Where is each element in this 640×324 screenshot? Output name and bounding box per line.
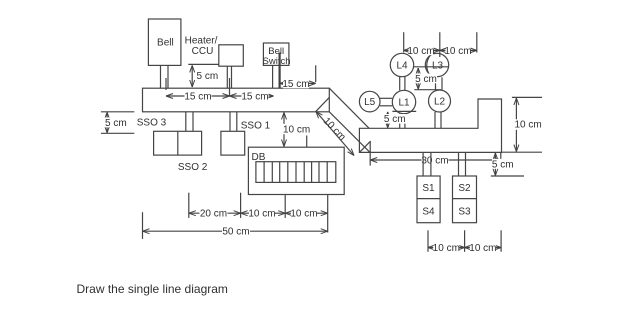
svg-text:L4: L4 [396,61,408,72]
svg-text:10 cm: 10 cm [407,46,434,57]
svg-text:15 cm: 15 cm [241,91,268,102]
svg-text:Bell: Bell [157,38,174,49]
svg-text:L3: L3 [432,61,444,72]
svg-text:5 cm: 5 cm [384,114,406,125]
svg-text:5 cm: 5 cm [197,71,219,82]
svg-text:5 cm: 5 cm [492,159,514,170]
svg-text:S2: S2 [458,183,471,194]
svg-text:SSO 2: SSO 2 [178,162,208,173]
svg-text:20 cm: 20 cm [200,209,227,220]
svg-text:L5: L5 [364,97,376,108]
svg-text:SSO 3: SSO 3 [137,118,167,129]
svg-text:15 cm: 15 cm [184,91,211,102]
svg-text:10 cm: 10 cm [248,209,275,220]
svg-text:10 cm: 10 cm [444,46,471,57]
svg-text:L1: L1 [398,98,410,109]
svg-text:10 cm: 10 cm [321,116,348,143]
svg-text:10 cm: 10 cm [515,120,542,131]
svg-text:L2: L2 [434,97,446,108]
svg-text:10 cm: 10 cm [469,243,496,254]
svg-text:10 cm: 10 cm [433,243,460,254]
svg-text:SSO 1: SSO 1 [241,121,271,132]
svg-text:15 cm: 15 cm [282,79,309,90]
svg-text:30 cm: 30 cm [421,156,448,167]
svg-text:5 cm: 5 cm [415,74,437,85]
svg-text:5 cm: 5 cm [105,118,127,129]
svg-text:S4: S4 [422,206,435,217]
svg-text:50 cm: 50 cm [222,227,249,238]
svg-text:S3: S3 [458,206,471,217]
svg-text:S1: S1 [422,183,435,194]
svg-text:10 cm: 10 cm [290,209,317,220]
svg-text:Draw the single line diagram: Draw the single line diagram [77,282,228,296]
svg-text:Switch: Switch [263,56,291,67]
svg-text:CCU: CCU [192,46,214,57]
svg-text:10 cm: 10 cm [283,124,310,135]
